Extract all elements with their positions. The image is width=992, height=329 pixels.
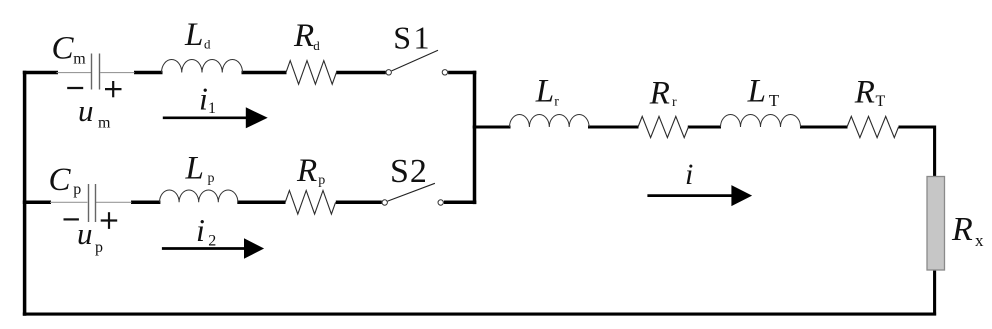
svg-text:C: C bbox=[49, 162, 72, 198]
svg-text:x: x bbox=[975, 231, 984, 250]
svg-text:i: i bbox=[199, 80, 208, 116]
svg-text:1: 1 bbox=[208, 100, 216, 117]
svg-text:S2: S2 bbox=[390, 153, 428, 190]
svg-text:r: r bbox=[554, 95, 559, 110]
svg-text:u: u bbox=[78, 93, 94, 128]
svg-text:L: L bbox=[185, 150, 204, 186]
svg-text:T: T bbox=[876, 93, 886, 110]
svg-text:i: i bbox=[196, 212, 205, 248]
svg-text:L: L bbox=[747, 74, 766, 110]
svg-text:u: u bbox=[77, 216, 93, 251]
svg-text:p: p bbox=[318, 173, 325, 188]
svg-text:R: R bbox=[296, 153, 317, 189]
svg-text:p: p bbox=[95, 239, 103, 256]
svg-text:R: R bbox=[649, 76, 670, 112]
svg-text:i: i bbox=[685, 158, 693, 191]
svg-text:L: L bbox=[184, 17, 203, 53]
svg-text:S1: S1 bbox=[393, 20, 432, 56]
svg-text:m: m bbox=[98, 115, 111, 132]
svg-text:p: p bbox=[73, 181, 81, 198]
svg-text:r: r bbox=[672, 95, 677, 110]
svg-text:m: m bbox=[73, 51, 86, 68]
svg-text:p: p bbox=[208, 171, 215, 186]
svg-text:d: d bbox=[313, 38, 320, 53]
svg-text:2: 2 bbox=[208, 233, 216, 250]
svg-text:R: R bbox=[951, 211, 973, 248]
svg-text:T: T bbox=[769, 91, 780, 110]
svg-text:L: L bbox=[535, 74, 554, 110]
svg-text:R: R bbox=[854, 75, 875, 111]
svg-text:d: d bbox=[204, 37, 211, 52]
svg-text:R: R bbox=[293, 18, 314, 54]
svg-text:C: C bbox=[52, 31, 75, 67]
